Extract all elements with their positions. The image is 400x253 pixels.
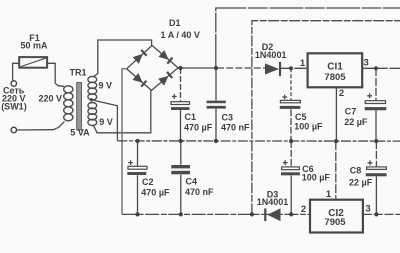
node: C2 top on 0V rail xyxy=(135,139,139,143)
svg-text:TR1: TR1 xyxy=(70,68,87,78)
wire: bottom terminal to transformer primary bottom xyxy=(17,122,65,131)
wire: C5 branch xyxy=(290,68,292,100)
transformer TR1 secondary winding bottom 9V xyxy=(88,103,97,126)
svg-text:C1: C1 xyxy=(185,112,197,122)
wire: CI2 pin 1 to 0V rail xyxy=(335,141,337,200)
top raw - rail xyxy=(252,21,400,215)
svg-text:470 µF: 470 µF xyxy=(141,188,170,198)
wire: C7 branch xyxy=(375,68,377,100)
svg-text:(SW1): (SW1) xyxy=(1,101,27,111)
svg-text:1: 1 xyxy=(326,189,332,200)
capacitor C7 22uF xyxy=(365,93,387,110)
node: C2 bottom on - rail xyxy=(135,212,139,216)
capacitor C1 470uF xyxy=(171,94,190,110)
wire: CI2 pin 3 to right edge xyxy=(363,213,400,215)
capacitor C2 470uF xyxy=(127,160,147,175)
wire: fuse to transformer primary top xyxy=(47,63,64,86)
svg-text:2: 2 xyxy=(301,204,306,215)
regulator CI2 7905 xyxy=(310,200,363,233)
regulator CI1 7805 xyxy=(308,53,363,87)
top raw + rail xyxy=(216,8,400,68)
transformer TR1 secondary winding top 9V xyxy=(88,76,97,100)
svg-text:22 µF: 22 µF xyxy=(349,178,373,188)
bridge diode bottom-right xyxy=(158,72,172,86)
node: C7/C8 on 0V rail xyxy=(374,139,378,143)
svg-text:C2: C2 xyxy=(142,177,154,187)
svg-text:7805: 7805 xyxy=(324,72,346,83)
node: mains terminal bottom xyxy=(11,127,16,132)
capacitor C4 470nF xyxy=(171,165,190,174)
svg-text:22 µF: 22 µF xyxy=(344,117,368,127)
svg-text:2: 2 xyxy=(339,88,344,99)
wire: mains top terminal to fuse xyxy=(13,63,20,80)
positive rail: bridge + to D2 anode xyxy=(178,67,217,69)
wire: C4 branch xyxy=(180,141,182,165)
svg-text:9 V: 9 V xyxy=(99,81,113,91)
node: mains terminal top xyxy=(11,81,16,86)
node: D2 cathode / C5 xyxy=(289,66,293,70)
svg-text:1N4001: 1N4001 xyxy=(257,197,289,207)
svg-text:1: 1 xyxy=(300,58,306,69)
wire: center tap to 0V rail corner xyxy=(93,100,118,141)
capacitor C5 100uF xyxy=(280,95,301,109)
node: raw minus riser on - rail xyxy=(250,212,254,216)
wire: secondary bottom to bridge AC bottom xyxy=(94,91,151,133)
svg-text:3: 3 xyxy=(364,58,369,69)
capacitor C6 100uF xyxy=(281,160,300,175)
svg-text:1N4001: 1N4001 xyxy=(255,50,287,60)
node: center tap junction xyxy=(90,98,93,101)
node: CI2 pin3 / C8 xyxy=(374,212,378,216)
bridge diode top-left xyxy=(133,50,147,64)
svg-text:470 nF: 470 nF xyxy=(221,123,250,133)
node: C5/C6 on 0V rail xyxy=(289,139,293,143)
node: C1/C4 on 0V rail xyxy=(179,139,183,143)
fuse F1 xyxy=(19,57,47,68)
bridge diode bottom-left xyxy=(133,73,147,87)
node: D3 / C6 on - rail xyxy=(289,212,293,216)
bridge rectifier D1 diamond xyxy=(127,46,179,91)
svg-text:C4: C4 xyxy=(186,177,198,187)
node: C3 top on + rail xyxy=(214,66,218,70)
0V rail xyxy=(117,140,400,142)
wire: bridge minus to negative rail xyxy=(122,69,127,215)
svg-text:C3: C3 xyxy=(222,112,234,122)
wire: C3 branch xyxy=(215,68,217,100)
wire: D2 cathode to CI1 pin 1 xyxy=(281,67,308,69)
wire: C8 branch xyxy=(375,141,377,167)
node: C4 bottom on - rail xyxy=(179,212,183,216)
diode D3 1N4001 xyxy=(265,208,280,221)
svg-text:470 nF: 470 nF xyxy=(185,187,214,197)
wire: C2 branch xyxy=(137,141,139,166)
svg-text:7905: 7905 xyxy=(324,217,346,228)
svg-text:220 V: 220 V xyxy=(39,94,63,104)
node: CI1 pin3 / C7 xyxy=(374,66,378,70)
capacitor C3 470nF xyxy=(207,101,226,109)
svg-text:3: 3 xyxy=(365,204,370,215)
svg-text:5 VA: 5 VA xyxy=(70,127,90,137)
svg-text:470 µF: 470 µF xyxy=(184,122,213,132)
svg-text:C5: C5 xyxy=(295,112,307,122)
node: CI pins on 0V rail xyxy=(334,139,338,143)
wire: C1 branch xyxy=(180,68,182,102)
svg-text:C8: C8 xyxy=(350,166,362,176)
wire: CI1 pin 3 to right edge xyxy=(362,67,400,69)
wire: secondary top to bridge AC top xyxy=(94,40,152,77)
node: C3 bottom on 0V rail xyxy=(214,139,218,143)
svg-text:100 µF: 100 µF xyxy=(302,173,331,183)
node: C1 top on + rail xyxy=(178,66,182,70)
svg-text:1 A / 40 V: 1 A / 40 V xyxy=(161,30,200,40)
diode D2 1N4001 xyxy=(265,62,280,76)
svg-text:100 µF: 100 µF xyxy=(294,122,323,132)
svg-text:50 mA: 50 mA xyxy=(20,41,48,51)
wire: CI1 pin 2 to 0V rail xyxy=(335,87,337,141)
capacitor C8 22uF xyxy=(366,160,387,176)
svg-text:9 V: 9 V xyxy=(99,117,113,127)
svg-text:D1: D1 xyxy=(169,18,181,28)
bridge diode top-right xyxy=(159,50,173,64)
negative rail: bridge - to CI2 pin 2 xyxy=(122,213,310,215)
svg-text:C7: C7 xyxy=(345,106,357,116)
wire: C6 branch xyxy=(290,141,292,167)
transformer TR1 primary winding xyxy=(64,86,73,121)
transformer core xyxy=(77,83,82,131)
